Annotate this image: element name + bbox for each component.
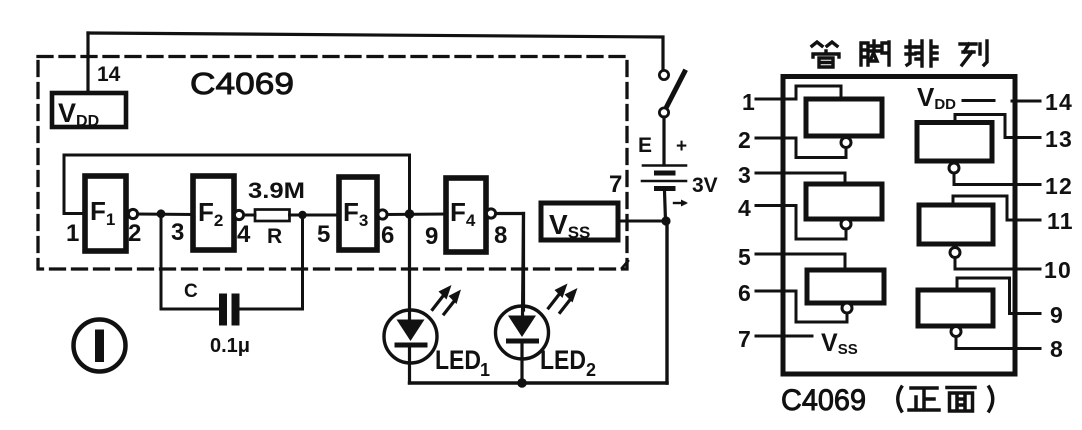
- svg-text:0.1μ: 0.1μ: [210, 335, 250, 357]
- svg-text:E: E: [638, 134, 652, 157]
- node: junction pin2/pin3: [157, 209, 166, 218]
- svg-text:7: 7: [738, 326, 751, 352]
- svg-text:9: 9: [425, 223, 438, 250]
- VSS terminal box: [541, 203, 618, 240]
- wire: bottom return rail: [410, 381, 668, 384]
- gate G1 (pins 1-2): [806, 99, 882, 136]
- wire: VSS to battery minus: [618, 220, 666, 223]
- svg-text:11: 11: [1047, 208, 1074, 234]
- wire: LED2 to bottom rail: [520, 343, 523, 383]
- F1 output bubble: [128, 209, 137, 218]
- char GUAN 管: [812, 42, 839, 67]
- fullwidth paren ): [989, 387, 993, 411]
- inverter F1: [85, 176, 126, 251]
- svg-text:9: 9: [1050, 302, 1063, 328]
- gate G4 (pins 13-12): [917, 123, 992, 162]
- char LIE 列: [960, 41, 987, 65]
- wire: pin1 to G1 input: [785, 86, 841, 99]
- svg-text:3.9M: 3.9M: [248, 178, 305, 203]
- LED1 triangle anode: [397, 320, 425, 342]
- svg-text:5: 5: [317, 221, 330, 248]
- wire: feedback loop from F1 input up and across to node 9: [64, 155, 410, 214]
- wire: G5 output to pin10: [955, 258, 1012, 270]
- IC package body: [783, 77, 1015, 375]
- LED1 circle: [384, 310, 437, 363]
- wire: F2 output to resistor: [244, 214, 255, 217]
- svg-text:C: C: [184, 281, 198, 302]
- current arrow: [674, 202, 685, 204]
- svg-text:8: 8: [494, 222, 507, 249]
- svg-text:3: 3: [171, 219, 184, 246]
- svg-text:2: 2: [586, 360, 596, 380]
- caption C4069 (front view): [781, 384, 993, 417]
- wire: battery minus lead: [665, 191, 666, 221]
- wire: LED1 to bottom rail: [408, 347, 411, 383]
- wire: F3 output to F4 input: [387, 213, 446, 217]
- svg-text:1: 1: [742, 89, 755, 115]
- wire: G6 output to pin8: [956, 337, 1012, 349]
- wire: G2 output to pin4: [785, 206, 846, 240]
- char MIAN 面: [947, 388, 975, 412]
- svg-text:8: 8: [1050, 336, 1063, 362]
- wire: pin13 to G4 input: [955, 115, 1012, 138]
- wire: F4 output to LED2 drop: [496, 214, 524, 311]
- LED2 circle: [496, 306, 549, 359]
- F4 output bubble: [486, 209, 495, 218]
- dashed IC boundary box C4069: [38, 57, 627, 270]
- wire: pin11 to G5 input: [953, 196, 1012, 220]
- title 管脚排列 (drawn strokes): [812, 41, 987, 67]
- wire: VDD top supply from pin14 to switch: [88, 33, 663, 70]
- wire: G1 output to pin2: [785, 138, 846, 158]
- char PAI 排: [906, 41, 937, 66]
- wire: capacitor branch right leg to node 5: [240, 215, 303, 309]
- svg-text:C4069: C4069: [190, 66, 294, 101]
- LED2 cathode bar: [506, 339, 539, 344]
- LED1 light arrows: [433, 285, 462, 314]
- svg-text:4: 4: [237, 221, 251, 248]
- svg-text:3V: 3V: [692, 174, 718, 197]
- left pin leads 1-7: [756, 98, 785, 101]
- gate G3 (pins 5-6): [807, 270, 884, 303]
- inverter F2: [193, 176, 234, 250]
- svg-text:5: 5: [738, 244, 751, 270]
- fullwidth paren (: [898, 387, 902, 411]
- svg-text:+: +: [676, 136, 687, 157]
- gate G6 (pins 9-8): [918, 290, 993, 326]
- svg-text:6: 6: [738, 280, 751, 306]
- svg-text:C4069: C4069: [781, 384, 866, 417]
- battery E plate long 2: [642, 180, 686, 183]
- svg-text:LED: LED: [540, 345, 586, 375]
- wire: pin3 to G2 input: [785, 173, 845, 184]
- wire: rail up right side to battery minus: [665, 221, 668, 383]
- svg-text:10: 10: [1044, 257, 1072, 283]
- F2 output bubble: [234, 210, 243, 219]
- wire: G3 output to pin6: [785, 291, 847, 322]
- node: junction pin6/pin9/LED1: [405, 209, 415, 219]
- svg-text:2: 2: [738, 127, 751, 153]
- svg-text:1: 1: [66, 220, 79, 247]
- wire: resistor to F3 input: [290, 214, 340, 217]
- switch S upper contact: [659, 70, 668, 79]
- svg-text:7: 7: [609, 171, 622, 198]
- svg-text:6: 6: [381, 222, 394, 249]
- wire: pin7 stub to VSS: [785, 335, 812, 338]
- LED2 light arrows: [549, 284, 578, 313]
- wire: F4 drop to LED2: [523, 214, 524, 317]
- capacitor C plates: [219, 294, 227, 326]
- gate G2 (pins 3-4): [806, 184, 882, 219]
- svg-text:14: 14: [1045, 89, 1073, 115]
- char ZHENG 正: [909, 388, 939, 410]
- switch S lower contact: [659, 108, 668, 117]
- wire: capacitor branch left leg from node 3: [161, 214, 219, 309]
- VDD terminal box: [52, 93, 126, 127]
- wire: pin5 to G3 input: [785, 254, 845, 270]
- char JIAO 脚: [861, 41, 889, 65]
- wire: pin9 to G6 input: [957, 278, 1012, 314]
- LED2 triangle anode: [508, 316, 536, 338]
- svg-text:R: R: [267, 225, 282, 248]
- LED1 cathode bar: [395, 343, 428, 348]
- wire: G4 output to pin12: [954, 173, 1012, 185]
- battery E plate long 1: [643, 164, 686, 167]
- switch blade: [667, 72, 685, 107]
- battery E plate short 2: [654, 186, 676, 191]
- right pin leads 8-14: [1012, 100, 1040, 103]
- wire: switch to battery plus: [662, 117, 665, 165]
- wire: node9 down to LED1: [408, 214, 411, 320]
- svg-text:3: 3: [738, 162, 751, 188]
- svg-text:13: 13: [1045, 126, 1073, 152]
- svg-text:12: 12: [1045, 173, 1073, 199]
- wire: F1 output to F2 input: [138, 213, 194, 217]
- gate G5 (pins 11-10): [919, 205, 993, 244]
- svg-text:14: 14: [97, 63, 121, 86]
- svg-text:1: 1: [480, 360, 490, 380]
- svg-text:2: 2: [128, 220, 141, 247]
- inverter F3: [339, 177, 377, 250]
- figure number badge (1): [74, 320, 126, 372]
- inverter F4: [446, 178, 486, 252]
- wire: VDD dash to pin 14: [963, 99, 994, 102]
- node: junction R / C / pin5: [298, 211, 306, 219]
- svg-text:4: 4: [738, 195, 751, 221]
- dashed corner tick: [622, 261, 628, 268]
- wire: pin 14 drop into VDD box: [86, 33, 89, 93]
- F3 output bubble: [378, 210, 387, 219]
- svg-text:LED: LED: [435, 345, 481, 375]
- resistor R body: [255, 210, 290, 222]
- battery E plate short 1: [654, 171, 676, 176]
- node: battery minus junction: [661, 216, 670, 225]
- node: LED2 junction on rail: [517, 378, 527, 388]
